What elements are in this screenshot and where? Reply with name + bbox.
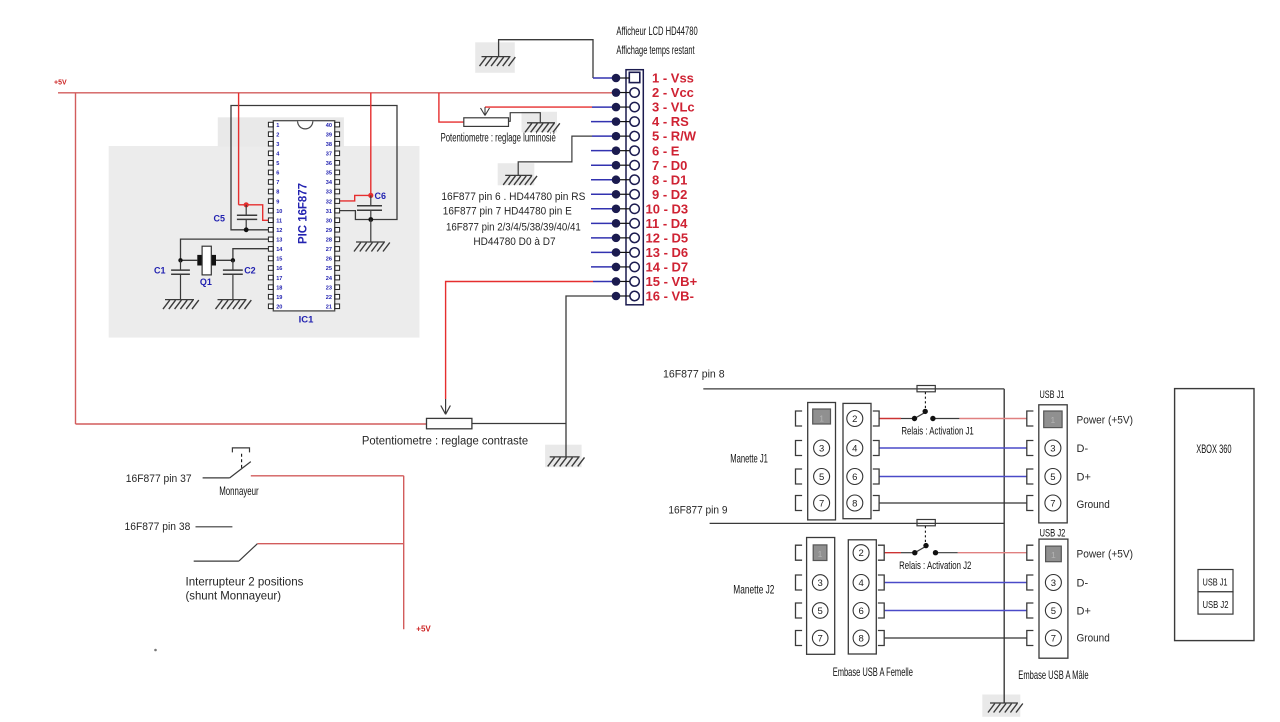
svg-text:Afficheur LCD HD44780: Afficheur LCD HD44780 bbox=[616, 24, 698, 38]
capacitor C1 bbox=[171, 260, 190, 299]
svg-text:4 - RS: 4 - RS bbox=[652, 114, 689, 129]
svg-text:37: 37 bbox=[326, 151, 332, 157]
label Monnayeur bbox=[219, 484, 259, 498]
potentiometer wiper arrow (luminosity) bbox=[481, 107, 490, 115]
svg-text:3: 3 bbox=[276, 142, 279, 148]
label 16F877 pin 7 HD44780 pin E bbox=[443, 206, 572, 218]
svg-text:3: 3 bbox=[819, 443, 824, 454]
svg-text:16F877 pin 37: 16F877 pin 37 bbox=[126, 473, 192, 485]
relay J2 dashed link bbox=[924, 526, 926, 543]
relay coil Activation J1 bbox=[917, 386, 935, 392]
svg-text:USB J2: USB J2 bbox=[1203, 599, 1229, 611]
node C5 bottom junction bbox=[244, 227, 249, 232]
wire J2 row1 Power red bbox=[885, 552, 1027, 554]
label USB J1 bbox=[1040, 389, 1065, 401]
svg-text:10: 10 bbox=[276, 209, 282, 215]
svg-text:Manette J1: Manette J1 bbox=[730, 452, 768, 466]
capacitor C6 bbox=[357, 195, 382, 219]
svg-text:11 - D4: 11 - D4 bbox=[646, 216, 689, 231]
svg-text:D-: D- bbox=[1077, 443, 1089, 455]
svg-text:16F877 pin 6 . HD44780 pin R: 16F877 pin 6 . HD44780 pin RS bbox=[441, 191, 585, 203]
switch Interrupteur 2 positions bbox=[194, 544, 258, 561]
connector Manette J2 even pins bbox=[848, 540, 884, 654]
switch relay J1 contacts bbox=[901, 409, 959, 422]
wire +5V feed to contrast potentiometer bbox=[76, 423, 427, 425]
svg-text:1: 1 bbox=[1051, 415, 1056, 425]
svg-text:2: 2 bbox=[858, 548, 863, 559]
wire J2 row3 D+ blue bbox=[885, 610, 1027, 612]
wire potentiometer to ground (luminosity) bbox=[509, 113, 541, 123]
svg-text:12: 12 bbox=[276, 228, 282, 234]
svg-text:1: 1 bbox=[1051, 550, 1056, 560]
label shunt Monnayeur bbox=[186, 589, 282, 603]
IC U1 PIC 16F877 body bbox=[273, 121, 334, 311]
wire +5V vertical bottom left bbox=[403, 476, 405, 629]
svg-text:31: 31 bbox=[326, 209, 332, 215]
wire black loop top/left to pin 12 bbox=[231, 106, 397, 230]
svg-text:39: 39 bbox=[326, 132, 332, 138]
ground for R/W bbox=[503, 175, 537, 185]
svg-text:Power (+5V): Power (+5V) bbox=[1077, 549, 1134, 561]
label C5 bbox=[214, 214, 226, 224]
svg-text:8: 8 bbox=[858, 633, 863, 644]
label C2 bbox=[244, 266, 256, 276]
label Interrupteur 2 positions bbox=[186, 575, 304, 589]
svg-text:15 - VB+: 15 - VB+ bbox=[646, 274, 698, 289]
svg-text:16F877 pin 8: 16F877 pin 8 bbox=[663, 369, 725, 381]
svg-text:36: 36 bbox=[326, 161, 332, 167]
svg-text:30: 30 bbox=[326, 218, 332, 224]
svg-text:Ground: Ground bbox=[1077, 499, 1110, 511]
label Embase USB A Male bbox=[1018, 668, 1089, 682]
svg-text:19: 19 bbox=[276, 295, 282, 301]
svg-text:7: 7 bbox=[1050, 498, 1055, 509]
ground top middle bbox=[480, 57, 516, 67]
svg-text:Potentiometre : reglage contra: Potentiometre : reglage contraste bbox=[362, 436, 528, 448]
svg-text:5: 5 bbox=[819, 472, 824, 483]
labels USB J2 signal names bbox=[1077, 549, 1134, 645]
net +5V label bbox=[54, 80, 67, 87]
svg-text:23: 23 bbox=[326, 285, 332, 291]
ground below C1 bbox=[163, 300, 199, 310]
svg-text:25: 25 bbox=[326, 266, 332, 272]
svg-text:6 - E: 6 - E bbox=[652, 143, 680, 158]
wire pin 14 to crystal bbox=[233, 249, 269, 261]
wire pin 31 to C6 bottom bbox=[339, 211, 371, 220]
wire J1 row4 Ground bbox=[880, 502, 1027, 504]
svg-text:Affichage temps restant: Affichage temps restant bbox=[616, 43, 695, 57]
net +5V label bottom bbox=[416, 625, 431, 634]
coin acceptor symbol bbox=[232, 448, 249, 470]
svg-text:7: 7 bbox=[1051, 633, 1056, 644]
svg-text:20: 20 bbox=[276, 304, 282, 310]
svg-text:26: 26 bbox=[326, 257, 332, 263]
svg-text:2: 2 bbox=[852, 414, 857, 425]
connector USB J1 bbox=[1027, 405, 1067, 523]
connector Manette J2 odd pins bbox=[796, 538, 835, 655]
connector LCD pin holes bbox=[629, 72, 640, 300]
svg-text:18: 18 bbox=[276, 285, 282, 291]
labels LCD pin names bbox=[646, 71, 698, 304]
wire LCD pin 3 VLc to wiper bbox=[485, 106, 592, 108]
svg-text:2: 2 bbox=[276, 132, 279, 138]
label 16F877 pin 6 HD44780 pin RS bbox=[441, 191, 585, 203]
label Q1 bbox=[200, 277, 212, 287]
capacitor C2 bbox=[223, 260, 243, 299]
svg-text:6: 6 bbox=[276, 171, 279, 177]
svg-text:16F877 pin 2/3/4/5/38/39/40/41: 16F877 pin 2/3/4/5/38/39/40/41 bbox=[446, 221, 581, 233]
label XBOX 360 bbox=[1196, 442, 1232, 456]
svg-text:15: 15 bbox=[276, 257, 282, 263]
svg-text:8: 8 bbox=[852, 498, 857, 509]
wire +5V rail left vertical drop bbox=[75, 93, 77, 424]
crystal Q1 bbox=[197, 246, 216, 275]
svg-text:21: 21 bbox=[326, 304, 332, 310]
IC U1 pins and pin numbers bbox=[268, 122, 339, 310]
label Afficheur LCD HD44780 bbox=[616, 24, 698, 38]
svg-text:USB J1: USB J1 bbox=[1040, 389, 1065, 401]
svg-text:8: 8 bbox=[276, 190, 279, 196]
wire contrast potentiometer to ground net bbox=[472, 423, 566, 425]
potentiometer reglage contraste bbox=[427, 418, 472, 428]
svg-text:+5V: +5V bbox=[416, 625, 431, 634]
box USB J1 inside XBOX bbox=[1198, 570, 1233, 592]
svg-text:7: 7 bbox=[819, 498, 824, 509]
label IC1 bbox=[299, 315, 315, 326]
svg-text:5 - R/W: 5 - R/W bbox=[652, 129, 697, 144]
svg-text:33: 33 bbox=[326, 190, 332, 196]
ground right of luminosity potentiometer bbox=[525, 123, 560, 133]
svg-text:Embase USB A Mâle: Embase USB A Mâle bbox=[1018, 668, 1089, 682]
svg-text:5: 5 bbox=[276, 161, 279, 167]
wire Monnayeur to +5V bbox=[251, 475, 404, 477]
nodes LCD pin junction dots bbox=[612, 74, 621, 301]
svg-text:1 - Vss: 1 - Vss bbox=[652, 71, 694, 86]
svg-text:13: 13 bbox=[276, 238, 282, 244]
label C6 bbox=[375, 191, 387, 201]
svg-text:16F877 pin 38: 16F877 pin 38 bbox=[125, 521, 191, 533]
box USB J2 inside XBOX bbox=[1198, 592, 1233, 614]
connector Manette J1 odd pins bbox=[796, 403, 836, 520]
svg-text:24: 24 bbox=[326, 276, 333, 282]
label 16F877 pin 37 bbox=[126, 473, 192, 485]
label Affichage temps restant bbox=[616, 43, 695, 57]
svg-text:40: 40 bbox=[326, 123, 332, 129]
svg-text:C5: C5 bbox=[214, 214, 226, 224]
wire J2 row2 D- blue bbox=[885, 582, 1027, 584]
label Relais : Activation J1 bbox=[901, 426, 973, 438]
svg-text:7 - D0: 7 - D0 bbox=[652, 158, 687, 173]
wire 16F877 pin 8 net bbox=[703, 388, 1004, 390]
node crystal right junction bbox=[231, 258, 235, 262]
relay J1 dashed link bbox=[924, 392, 926, 409]
wire crystal horizontal bbox=[181, 259, 233, 261]
wire +5V branch to luminosity potentiometer bbox=[439, 93, 464, 122]
svg-text:3 - VLc: 3 - VLc bbox=[652, 100, 695, 115]
svg-text:3: 3 bbox=[1050, 443, 1055, 454]
svg-text:Relais : Activation J1: Relais : Activation J1 bbox=[901, 426, 973, 438]
svg-text:USB J2: USB J2 bbox=[1040, 528, 1066, 540]
svg-text:4: 4 bbox=[852, 443, 857, 454]
wires LCD pin stubs and nets bbox=[591, 78, 630, 296]
svg-text:HD44780 D0 à D7: HD44780 D0 à D7 bbox=[473, 236, 555, 248]
svg-text:Manette J2: Manette J2 bbox=[733, 583, 774, 597]
svg-text:9 - D2: 9 - D2 bbox=[652, 187, 687, 202]
capacitor C5 bbox=[237, 205, 257, 230]
svg-text:14: 14 bbox=[276, 247, 283, 253]
svg-text:USB J1: USB J1 bbox=[1203, 577, 1228, 589]
svg-text:5: 5 bbox=[1051, 606, 1056, 617]
wire J1 row1 Power red bbox=[880, 418, 1027, 420]
wire LCD pin 15 VB+ to contrast wiper bbox=[446, 282, 593, 400]
wire ground bus vertical bbox=[1003, 389, 1005, 703]
svg-text:6: 6 bbox=[852, 472, 857, 483]
wire C6 junction to ground bbox=[370, 220, 372, 243]
connector Manette J1 even pins bbox=[843, 403, 879, 518]
svg-text:7: 7 bbox=[276, 180, 279, 186]
label HD44780 D0 a D7 bbox=[473, 236, 555, 248]
wire +5V branch to C5 bbox=[239, 93, 247, 205]
ground below contrast net bbox=[548, 457, 585, 467]
connector LCD HD44780 body bbox=[626, 70, 643, 305]
svg-text:17: 17 bbox=[276, 276, 282, 282]
label 16F877 pin 38 bbox=[125, 521, 191, 533]
wire Interrupteur to +5V bbox=[257, 543, 403, 545]
svg-text:Ground: Ground bbox=[1077, 633, 1110, 645]
node C6 top junction bbox=[368, 193, 373, 198]
svg-text:16: 16 bbox=[276, 266, 282, 272]
svg-text:35: 35 bbox=[326, 171, 332, 177]
label Embase USB A Femelle bbox=[833, 665, 913, 679]
svg-text:Potentiometre : reglage lumino: Potentiometre : reglage luminosié bbox=[441, 132, 556, 144]
svg-text:(shunt Monnayeur): (shunt Monnayeur) bbox=[186, 589, 282, 603]
ground below C6 bbox=[354, 242, 390, 252]
node C6 bottom junction bbox=[368, 217, 373, 222]
wire 16F877 pin 38 stub bbox=[196, 526, 233, 528]
svg-text:1: 1 bbox=[819, 414, 824, 424]
svg-text:IC1: IC1 bbox=[299, 315, 315, 326]
svg-text:32: 32 bbox=[326, 199, 332, 205]
svg-text:11: 11 bbox=[276, 218, 282, 224]
potentiometer reglage luminosite bbox=[464, 118, 509, 127]
svg-text:C2: C2 bbox=[244, 266, 256, 276]
switch Monnayeur bbox=[203, 462, 251, 478]
label Manette J1 bbox=[730, 452, 768, 466]
svg-text:12 - D5: 12 - D5 bbox=[646, 230, 689, 245]
svg-text:34: 34 bbox=[326, 180, 333, 186]
svg-text:22: 22 bbox=[326, 295, 332, 301]
svg-text:2 - Vcc: 2 - Vcc bbox=[652, 85, 694, 100]
svg-text:5: 5 bbox=[818, 606, 823, 617]
svg-text:1: 1 bbox=[818, 549, 823, 559]
svg-text:+5V: +5V bbox=[54, 80, 67, 87]
wire J1 row3 D+ blue bbox=[880, 476, 1027, 478]
svg-text:XBOX 360: XBOX 360 bbox=[1196, 442, 1232, 456]
svg-text:Monnayeur: Monnayeur bbox=[219, 484, 259, 498]
wire J2 row4 Ground bbox=[885, 637, 1027, 639]
svg-text:7: 7 bbox=[818, 633, 823, 644]
svg-text:Power (+5V): Power (+5V) bbox=[1077, 415, 1134, 427]
svg-text:Q1: Q1 bbox=[200, 277, 212, 287]
svg-text:8 - D1: 8 - D1 bbox=[652, 172, 687, 187]
node C5 top junction bbox=[244, 202, 249, 207]
wire LCD pin 16 VB- to ground bbox=[566, 296, 616, 457]
label Potentiometre : reglage contraste bbox=[362, 436, 528, 448]
wire LCD pin 5 R/W to ground bbox=[518, 136, 592, 175]
wire pin 13 to crystal bbox=[181, 239, 269, 260]
svg-text:16F877 pin 9: 16F877 pin 9 bbox=[668, 505, 727, 517]
wire 16F877 pin 9 net bbox=[710, 522, 1005, 524]
label C1 bbox=[154, 266, 166, 276]
svg-text:6: 6 bbox=[858, 606, 863, 617]
svg-text:C6: C6 bbox=[375, 191, 387, 201]
svg-text:28: 28 bbox=[326, 238, 332, 244]
svg-text:Embase USB A Femelle: Embase USB A Femelle bbox=[833, 665, 913, 679]
wire J1 row2 D- blue bbox=[880, 447, 1027, 449]
svg-text:PIC 16F877: PIC 16F877 bbox=[296, 183, 310, 244]
wire +5V rail horizontal to LCD pin 2 bbox=[58, 92, 616, 94]
svg-text:Relais : Activation J2: Relais : Activation J2 bbox=[899, 560, 971, 572]
svg-text:13 - D6: 13 - D6 bbox=[646, 245, 689, 260]
relay coil Activation J2 bbox=[917, 520, 935, 526]
svg-text:1: 1 bbox=[276, 123, 279, 129]
connector USB J2 bbox=[1027, 539, 1068, 658]
svg-text:Interrupteur 2 positions: Interrupteur 2 positions bbox=[186, 575, 304, 589]
wire pin 32 to C6 bbox=[339, 195, 371, 201]
svg-text:D+: D+ bbox=[1077, 606, 1091, 618]
svg-text:3: 3 bbox=[818, 578, 823, 589]
svg-text:4: 4 bbox=[858, 578, 863, 589]
svg-text:5: 5 bbox=[1050, 472, 1055, 483]
svg-text:3: 3 bbox=[1051, 578, 1056, 589]
svg-text:27: 27 bbox=[326, 247, 332, 253]
label USB J2 bbox=[1040, 528, 1066, 540]
switch relay J2 contacts bbox=[901, 543, 958, 556]
svg-text:14 - D7: 14 - D7 bbox=[646, 260, 689, 275]
potentiometer wiper arrow (contrast) bbox=[441, 399, 451, 414]
box XBOX 360 bbox=[1175, 389, 1254, 641]
node crystal left junction bbox=[178, 258, 182, 262]
svg-text:D+: D+ bbox=[1077, 472, 1091, 484]
ground below C2 bbox=[216, 300, 252, 310]
svg-text:10 - D3: 10 - D3 bbox=[646, 201, 689, 216]
svg-text:16F877 pin 7 HD44780 pin E: 16F877 pin 7 HD44780 pin E bbox=[443, 206, 572, 218]
svg-text:D-: D- bbox=[1077, 578, 1089, 590]
label 16F877 pin 9 bbox=[668, 505, 727, 517]
label 16F877 pin 8 bbox=[663, 369, 725, 381]
svg-text:29: 29 bbox=[326, 228, 332, 234]
ground bottom middle bbox=[988, 703, 1023, 713]
label Potentiometre : reglage luminosite bbox=[441, 132, 556, 144]
svg-text:C1: C1 bbox=[154, 266, 166, 276]
wire C5 to pin 11 bbox=[246, 205, 268, 221]
label 16F877 pin 2/3/4/5/38/39/40/41 bbox=[446, 221, 581, 233]
label Relais : Activation J2 bbox=[899, 560, 971, 572]
svg-text:38: 38 bbox=[326, 142, 332, 148]
wire LCD pin 1 to ground bbox=[499, 40, 593, 78]
svg-text:16 - VB-: 16 - VB- bbox=[646, 289, 694, 304]
label Manette J2 bbox=[733, 583, 774, 597]
label PIC 16F877 bbox=[296, 183, 310, 244]
svg-text:9: 9 bbox=[276, 199, 279, 205]
wire +5V branch to C6 bbox=[370, 93, 372, 196]
labels USB J1 signal names bbox=[1077, 415, 1134, 512]
